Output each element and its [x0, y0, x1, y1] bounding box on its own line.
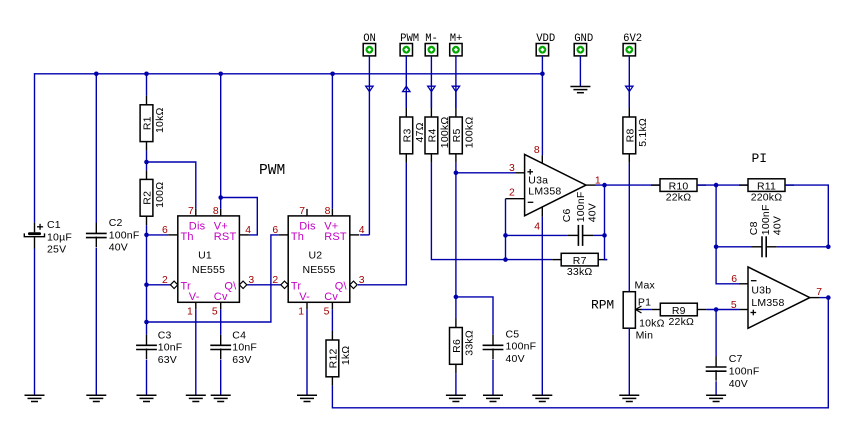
junction bus-R1	[144, 72, 149, 77]
ground R6	[446, 395, 466, 401]
net arrow PWM	[403, 86, 410, 91]
wire R2 to Th node	[146, 225, 148, 235]
ground U2 pin1	[297, 395, 317, 401]
svg-text:U2: U2	[308, 249, 322, 261]
svg-text:V-: V-	[299, 291, 310, 303]
resistor R7 33k	[552, 253, 607, 278]
svg-text:2: 2	[272, 275, 278, 286]
wire C8 line right	[777, 246, 829, 248]
wire Tr node down	[146, 285, 148, 322]
junction bus-VDD	[540, 72, 545, 77]
svg-text:C5: C5	[506, 328, 520, 340]
svg-text:22kΩ: 22kΩ	[666, 192, 692, 204]
resistor R10 22k	[651, 179, 706, 204]
svg-text:NE555: NE555	[192, 264, 225, 276]
net arrow 6V2	[626, 86, 633, 91]
svg-text:8: 8	[534, 145, 540, 156]
wire Tr node to U1 pin2	[147, 284, 175, 286]
wire R5 down	[455, 163, 457, 297]
svg-text:47Ω: 47Ω	[414, 122, 426, 142]
wire R7 to output node	[605, 185, 608, 260]
wire VDD top bus	[35, 73, 543, 75]
wire R4 to R7 line	[431, 163, 552, 260]
wire C8 node to U3b pin6	[716, 247, 739, 284]
wire VDD pad to bus to U3a pin8	[541, 60, 543, 155]
svg-text:C8: C8	[748, 221, 760, 235]
wire C3 node to C3	[146, 322, 148, 335]
wire R11 right down	[785, 185, 828, 247]
wire ON vertical	[368, 60, 370, 235]
label PI	[752, 151, 767, 166]
wire bus to R1	[146, 74, 148, 96]
wire PWM vertical	[405, 60, 407, 108]
wire bus left to C1	[34, 73, 36, 223]
svg-text:R1: R1	[142, 116, 154, 130]
svg-text:4: 4	[534, 222, 540, 233]
wire R10-R11 node down	[715, 185, 717, 247]
capacitor C4 10nF 63V	[210, 329, 257, 366]
wire C2 to ground	[95, 248, 97, 396]
svg-text:1: 1	[187, 306, 193, 317]
wire bus to C2	[95, 74, 97, 223]
ground U1 pin1	[186, 395, 206, 401]
svg-text:40V: 40V	[729, 378, 748, 390]
wire Th node down	[146, 235, 148, 285]
connector pad M-	[425, 33, 438, 60]
junction R1-R2 node	[144, 160, 149, 165]
wire 6V2 vertical	[628, 60, 630, 108]
resistor R3 47ohm	[400, 108, 426, 163]
junction R10-R11 node	[714, 183, 719, 188]
svg-text:Th: Th	[291, 231, 304, 243]
svg-text:3: 3	[509, 163, 515, 174]
svg-text:Th: Th	[181, 231, 194, 243]
svg-text:5: 5	[324, 306, 330, 317]
svg-text:25V: 25V	[47, 244, 66, 256]
wire M+ node to U3a pin3	[456, 172, 515, 174]
junction bus-U2pin8	[330, 72, 335, 77]
IC U2 NE555 timer	[272, 206, 364, 317]
wire C5 to ground	[492, 360, 494, 396]
svg-text:Min: Min	[636, 329, 654, 341]
svg-text:10kΩ: 10kΩ	[154, 107, 166, 133]
wire M+ arrow to R5	[455, 92, 457, 108]
svg-text:Max: Max	[635, 280, 656, 292]
wire P1 to ground	[628, 328, 630, 395]
wire U1 pin5 to C4	[220, 309, 222, 335]
svg-text:NE555: NE555	[302, 264, 335, 276]
wire P1 wiper to R9	[642, 309, 652, 311]
svg-text:40V: 40V	[109, 242, 128, 254]
svg-text:100nF: 100nF	[729, 366, 760, 378]
wire pin5 node to C7	[715, 310, 717, 357]
connector pad GND	[574, 33, 593, 60]
svg-text:40V: 40V	[586, 203, 598, 222]
svg-text:C4: C4	[232, 329, 246, 341]
capacitor C7 100nF 40V	[706, 353, 760, 390]
connector pad M+	[450, 33, 463, 60]
ground C3	[137, 395, 157, 401]
svg-text:R12: R12	[328, 348, 340, 368]
wire U1 pin3 Q to U2 pin2 Tr	[247, 284, 281, 286]
wire C4 to ground	[220, 360, 222, 396]
junction C8 right node	[826, 245, 831, 250]
svg-text:RST: RST	[324, 231, 347, 243]
wire C6 line left	[506, 234, 568, 236]
junction R7 node	[503, 257, 508, 262]
wire C7 to ground	[715, 381, 717, 395]
svg-text:C7: C7	[729, 353, 743, 365]
net arrow M+	[452, 86, 459, 91]
svg-text:C3: C3	[158, 329, 172, 341]
wire U3a pin2 down	[505, 199, 507, 236]
svg-text:10nF: 10nF	[158, 342, 183, 354]
svg-text:V-: V-	[189, 291, 200, 303]
wire U2 pin3 Q to R3	[358, 163, 406, 285]
wire U1 pin1 to ground	[195, 309, 197, 395]
svg-text:6: 6	[272, 225, 278, 236]
wire C1 to ground	[34, 249, 36, 396]
wire ON to U2 RST	[360, 234, 369, 236]
ground GND pad	[570, 87, 590, 93]
svg-text:33kΩ: 33kΩ	[567, 266, 593, 278]
junction U3a pin2 node	[503, 233, 508, 238]
wire R9 to U3b pin5	[706, 309, 739, 311]
junction M+ R6 node	[454, 295, 459, 300]
junction bus-C2	[94, 72, 99, 77]
net arrow M-	[428, 86, 435, 91]
capacitor C8 100nF 40V (horizontal)	[748, 204, 784, 257]
connector pad VDD	[536, 33, 555, 60]
wire R8 to P1	[628, 163, 630, 292]
resistor R12 1k	[326, 331, 352, 386]
ground C5	[483, 395, 503, 401]
svg-text:RPM: RPM	[591, 297, 614, 312]
svg-text:7: 7	[188, 206, 194, 217]
svg-text:100nF: 100nF	[506, 341, 537, 353]
wire GND pad stub	[579, 60, 581, 87]
wire R10 to R11	[697, 184, 748, 186]
junction C3 node	[144, 320, 149, 325]
wire C6 line right	[593, 234, 604, 236]
connector pad PWM	[400, 33, 419, 60]
svg-text:22kΩ: 22kΩ	[669, 316, 695, 328]
svg-text:40V: 40V	[506, 353, 525, 365]
svg-text:C6: C6	[561, 208, 573, 222]
svg-text:63V: 63V	[232, 354, 251, 366]
wire R6 to ground	[455, 373, 457, 395]
wire node to U1 pin7 Dis	[147, 162, 196, 209]
wire M- vertical	[430, 60, 432, 108]
svg-text:33kΩ: 33kΩ	[464, 330, 476, 356]
svg-text:R10: R10	[669, 180, 689, 192]
wire U1 RST loop	[221, 198, 258, 235]
svg-text:63V: 63V	[158, 354, 177, 366]
svg-text:2: 2	[509, 188, 515, 199]
capacitor C5 100nF 40V	[483, 328, 537, 365]
svg-text:100nF: 100nF	[575, 192, 587, 223]
label RPM	[591, 297, 614, 312]
resistor R1 10k	[140, 96, 166, 151]
svg-text:LM358: LM358	[528, 186, 561, 198]
svg-text:8: 8	[325, 206, 331, 217]
svg-text:C2: C2	[109, 217, 123, 229]
junction U1 pin8-RST loop	[218, 195, 223, 200]
wire U3a output	[596, 184, 660, 186]
ground C7	[706, 395, 726, 401]
svg-text:5: 5	[731, 300, 737, 311]
resistor R8 5.1k	[623, 108, 649, 163]
ground C4	[211, 395, 231, 401]
svg-text:6: 6	[731, 274, 737, 285]
svg-text:PWM: PWM	[259, 163, 285, 179]
svg-text:10kΩ: 10kΩ	[639, 317, 665, 329]
junction C8 left node	[714, 245, 719, 250]
svg-text:R11: R11	[757, 180, 776, 192]
svg-text:R9: R9	[672, 305, 686, 317]
svg-text:10µF: 10µF	[47, 231, 72, 243]
IC U1 NE555 timer	[162, 206, 254, 317]
capacitor C1 10uF 25V (polarized)	[24, 219, 72, 256]
junction U3b pin5 node	[714, 307, 719, 312]
svg-text:RST: RST	[214, 231, 237, 243]
svg-text:5: 5	[212, 306, 218, 317]
wire C3 node to U2 pin6 Th	[147, 235, 279, 322]
junction M+ to op-amp	[454, 171, 459, 176]
resistor R4 100k	[425, 108, 451, 163]
ground P1	[619, 395, 639, 401]
wire M+ vertical	[455, 60, 457, 108]
connector pad ON	[363, 33, 376, 60]
resistor R6 33k	[450, 319, 476, 374]
svg-text:Cv: Cv	[324, 291, 338, 303]
svg-text:8: 8	[213, 206, 219, 217]
svg-text:R3: R3	[402, 128, 414, 142]
wire bus to U2 pin8 V+	[331, 74, 333, 209]
label PWM	[259, 163, 285, 179]
wire node to R6	[455, 297, 457, 319]
junction U3a output	[602, 183, 607, 188]
ground U3a pin4	[532, 395, 552, 401]
svg-text:1: 1	[298, 306, 304, 317]
svg-text:R7: R7	[573, 255, 587, 267]
wire node to C5	[456, 297, 493, 335]
ground C1	[25, 395, 45, 401]
svg-text:U3b: U3b	[751, 284, 771, 296]
svg-text:4: 4	[359, 225, 365, 236]
svg-text:PI: PI	[752, 151, 767, 166]
resistor R9 22k	[651, 303, 706, 328]
svg-text:6: 6	[162, 225, 168, 236]
svg-text:100nF: 100nF	[109, 229, 140, 241]
svg-text:LM358: LM358	[751, 297, 784, 309]
svg-text:220kΩ: 220kΩ	[751, 192, 783, 204]
wire R1 to R2	[146, 151, 148, 171]
svg-text:R5: R5	[451, 128, 463, 142]
svg-text:100nF: 100nF	[760, 204, 772, 235]
wire R12 to bottom rail	[332, 298, 828, 408]
resistor R11 220k	[739, 179, 794, 204]
svg-text:5.1kΩ: 5.1kΩ	[637, 118, 649, 147]
svg-text:7: 7	[299, 206, 305, 217]
svg-text:10nF: 10nF	[232, 342, 257, 354]
capacitor C6 100nF 40V (horizontal)	[561, 192, 598, 246]
svg-text:R8: R8	[625, 128, 637, 142]
wire C3 to ground	[146, 360, 148, 396]
capacitor C2 100nF 40V	[86, 217, 140, 254]
wire bus to U1 pin8 V+	[220, 74, 222, 209]
capacitor C3 10nF 63V	[136, 329, 182, 366]
potentiometer P1 10k	[623, 280, 664, 342]
resistor R2 100ohm	[140, 170, 166, 225]
svg-text:R4: R4	[427, 128, 439, 142]
resistor R5 100k	[450, 108, 476, 163]
svg-text:2: 2	[162, 275, 168, 286]
ground C2	[86, 395, 106, 401]
svg-text:7: 7	[816, 287, 822, 298]
wire pin2 node down	[505, 235, 507, 259]
op-amp U3b LM358	[731, 267, 822, 328]
svg-text:C1: C1	[47, 219, 61, 231]
wire M- arrow to R4	[430, 92, 432, 108]
svg-text:1kΩ: 1kΩ	[340, 346, 352, 366]
svg-text:U3a: U3a	[528, 174, 548, 186]
wire C8 line left	[716, 246, 751, 248]
junction C6 output node	[602, 233, 607, 238]
svg-text:40V: 40V	[771, 216, 783, 235]
junction bus-U1pin8	[218, 72, 223, 77]
junction Tr node	[144, 283, 149, 288]
svg-text:100Ω: 100Ω	[154, 182, 166, 208]
wire U3a pin4 to ground	[541, 217, 543, 396]
wire U2 pin5 to R12	[331, 309, 333, 331]
svg-text:Cv: Cv	[214, 291, 228, 303]
junction U3b output	[826, 295, 831, 300]
wire 6V2 arrow to R8	[628, 92, 630, 108]
connector pad 6V2	[623, 33, 642, 60]
wire U3b output to right rail	[820, 297, 829, 299]
net arrow ON	[366, 86, 373, 91]
wire U2 pin1 to ground	[306, 309, 308, 395]
svg-text:R2: R2	[142, 191, 154, 205]
op-amp U3a LM358	[506, 145, 601, 232]
wire Th node to U1 pin6	[147, 234, 169, 236]
wire PWM arrow to R3	[405, 92, 407, 108]
svg-text:U1: U1	[198, 249, 212, 261]
junction Th node	[144, 233, 149, 238]
svg-text:100kΩ: 100kΩ	[464, 117, 476, 149]
svg-text:R6: R6	[451, 339, 463, 353]
